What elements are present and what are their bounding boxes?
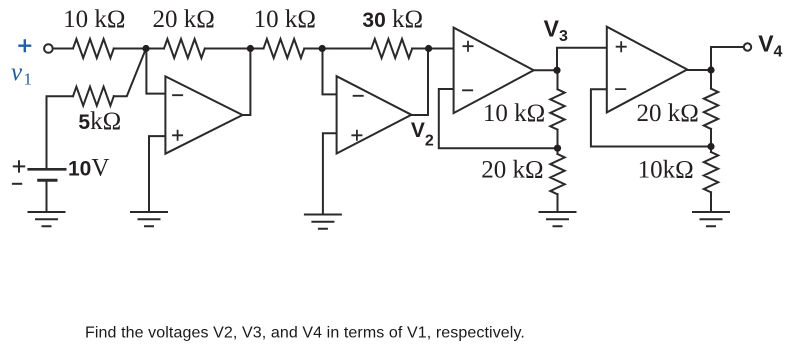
svg-text:v: v	[11, 59, 23, 86]
svg-text:20 kΩ: 20 kΩ	[153, 6, 215, 33]
svg-text:10 kΩ: 10 kΩ	[483, 100, 545, 127]
svg-text:5kΩ: 5kΩ	[78, 108, 121, 135]
svg-text:10kΩ: 10kΩ	[638, 156, 694, 183]
svg-text:V3: V3	[544, 15, 568, 45]
svg-text:20 kΩ: 20 kΩ	[481, 157, 543, 184]
svg-text:1: 1	[24, 69, 33, 88]
svg-text:10 kΩ: 10 kΩ	[63, 6, 125, 33]
svg-text:V4: V4	[758, 30, 782, 60]
svg-text:Find the voltages V2, V3, and: Find the voltages V2, V3, and V4 in term…	[85, 325, 525, 342]
svg-text:10 kΩ: 10 kΩ	[254, 6, 316, 33]
svg-text:10V: 10V	[68, 155, 109, 182]
svg-text:V2: V2	[411, 119, 434, 150]
svg-text:20 kΩ: 20 kΩ	[637, 100, 699, 127]
svg-text:30 kΩ: 30 kΩ	[362, 6, 423, 33]
